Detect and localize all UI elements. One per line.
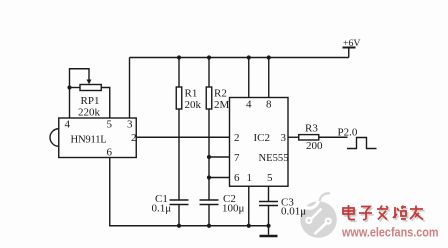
svg-text:3: 3 xyxy=(281,132,287,144)
potentiometer RP1 body xyxy=(80,85,101,91)
ground xyxy=(268,226,270,235)
svg-text:5: 5 xyxy=(107,119,113,131)
wire: HN911L pin6 down and ground rail xyxy=(110,158,269,226)
svg-text:HN911L: HN911L xyxy=(71,135,107,146)
wire: +6V top rail xyxy=(130,57,349,59)
svg-text:R1: R1 xyxy=(185,88,198,100)
wire: HN911L pin2 to NE555 pin2 xyxy=(136,136,229,138)
svg-text:www.elecfans.com: www.elecfans.com xyxy=(341,225,438,240)
node: ground rail C3/ground xyxy=(266,224,270,228)
node: rail/R1 junction xyxy=(177,55,181,59)
wire: riser to +6V terminal xyxy=(348,48,350,58)
wire: R2 top to rail xyxy=(208,58,210,88)
svg-text:5: 5 xyxy=(267,172,273,184)
svg-text:+6V: +6V xyxy=(343,38,361,49)
svg-text:8: 8 xyxy=(266,99,272,111)
watermark text shadow xyxy=(345,207,425,222)
svg-text:2: 2 xyxy=(234,132,240,144)
svg-text:100μ: 100μ xyxy=(222,203,245,215)
svg-text:220k: 220k xyxy=(78,107,101,119)
svg-text:2: 2 xyxy=(131,132,137,144)
wire: NE555 pin7 to R2C2 column xyxy=(209,156,230,158)
node: RP1/pin4 junction xyxy=(67,85,71,89)
watermark logo disc xyxy=(300,193,337,237)
wire: NE555 pin4 to rail xyxy=(248,58,250,98)
node: rail/pin8 junction xyxy=(267,55,271,59)
capacitor C2 plates xyxy=(200,200,219,205)
capacitor C3 plates xyxy=(259,202,278,206)
node: ground rail pin1 xyxy=(247,224,251,228)
wire: R3 to P2.0 xyxy=(319,136,348,138)
svg-text:0.1μ: 0.1μ xyxy=(152,203,172,215)
svg-text:1: 1 xyxy=(247,172,253,184)
svg-text:RP1: RP1 xyxy=(81,95,100,107)
wire: node to RP1 left terminal xyxy=(70,87,81,89)
svg-text:0.01μ: 0.01μ xyxy=(281,206,306,218)
wire: R1 bottom down to C1 xyxy=(178,109,180,200)
svg-text:P2.0: P2.0 xyxy=(338,127,358,139)
wire: RP1 right terminal to pin5 xyxy=(101,88,110,119)
svg-text:200: 200 xyxy=(306,140,323,152)
node: pin7 column junction xyxy=(207,155,211,159)
wire: NE555 pin8 to rail xyxy=(268,58,270,98)
wire: C3 bottom to ground rail xyxy=(268,206,270,226)
wire: NE555 pin6 to R2C2 column xyxy=(209,177,230,179)
wire: R1 top to rail xyxy=(178,58,180,88)
IC U1 HN911L box xyxy=(59,118,137,158)
svg-text:4: 4 xyxy=(65,119,71,131)
wire: C2 bottom to ground rail xyxy=(208,205,210,226)
wire: NE555 pin3 to R3 xyxy=(288,136,299,138)
svg-text:2M: 2M xyxy=(214,99,230,111)
svg-text:R3: R3 xyxy=(305,123,318,135)
node: rail/R2 junction xyxy=(207,55,211,59)
svg-text:6: 6 xyxy=(234,172,240,184)
watermark text dianzifashaoyou xyxy=(343,205,423,220)
capacitor C1 plates xyxy=(170,200,189,205)
wire: R2 bottom down to C2 xyxy=(208,109,210,200)
wire: NE555 pin1 to ground rail xyxy=(248,186,250,226)
wire: C1 bottom to ground rail xyxy=(178,205,180,226)
svg-text:IC2: IC2 xyxy=(254,132,271,144)
wire: NE555 pin5 down to C3 xyxy=(268,186,270,201)
svg-text:7: 7 xyxy=(234,152,240,164)
wire: RP1 wiper feedback loop xyxy=(70,69,90,88)
pulse waveform symbol at P2.0 xyxy=(347,138,377,149)
node: rail/pin4 junction xyxy=(247,55,251,59)
resistor R3 body xyxy=(299,135,319,140)
svg-text:NE555: NE555 xyxy=(259,153,289,164)
HN911L lens arc xyxy=(50,129,59,147)
node: pin6 column junction xyxy=(207,175,211,179)
power terminal +6V bar xyxy=(343,47,356,49)
svg-text:4: 4 xyxy=(246,99,252,111)
op-amp IC2 NE555 box xyxy=(230,98,289,187)
node: ground rail C1 xyxy=(177,224,181,228)
wire: HN911L pin3 to top rail xyxy=(129,58,131,119)
resistor R1 body xyxy=(176,87,182,109)
svg-text:6: 6 xyxy=(107,147,113,159)
node: ground rail C2 xyxy=(207,224,211,228)
RP1 wiper arrow xyxy=(87,80,92,85)
svg-text:3: 3 xyxy=(127,119,133,131)
svg-text:20k: 20k xyxy=(185,99,202,111)
wire: HN911L pin4 vertical xyxy=(69,88,71,119)
svg-text:R2: R2 xyxy=(214,88,227,100)
resistor R2 body xyxy=(206,87,212,109)
